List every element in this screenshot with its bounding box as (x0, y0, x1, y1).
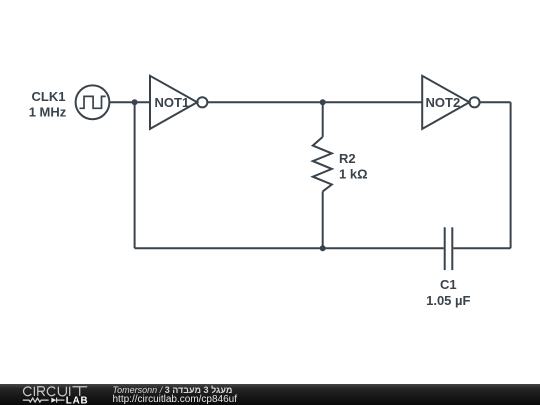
junction node B (NOT1 out / R2 top) (320, 99, 326, 105)
inverter NOT1 (150, 76, 207, 129)
CircuitLab logo (0, 384, 110, 405)
wire bottom middle to C1 (323, 247, 444, 249)
wire NOT2 output to right corner (480, 101, 511, 103)
wire CLK1 output to NOT1 input (109, 101, 150, 103)
svg-text:C1: C1 (440, 277, 457, 292)
junction node C (R2 bottom / feedback) (320, 245, 326, 251)
junction node A (CLK1/NOT1/feedback) (132, 99, 138, 105)
wire bottom left segment (135, 247, 323, 249)
resistor R2 (313, 102, 332, 248)
wire right side up (510, 102, 512, 248)
svg-text:CLK1: CLK1 (32, 89, 66, 104)
wire C1 to right corner (453, 247, 510, 249)
footer title (113, 385, 233, 395)
svg-text:1 kΩ: 1 kΩ (339, 167, 368, 182)
capacitor C1 (445, 227, 453, 270)
svg-text:NOT1: NOT1 (155, 95, 190, 110)
footer bar (0, 384, 540, 405)
inverter NOT2 (422, 76, 479, 129)
wire node A down left side (134, 102, 136, 248)
footer url (113, 394, 238, 405)
svg-text:R2: R2 (339, 151, 356, 166)
clock source CLK1 (76, 85, 110, 119)
wire NOT1 output to NOT2 input (207, 101, 422, 103)
svg-text:NOT2: NOT2 (426, 95, 461, 110)
svg-text:LAB: LAB (66, 395, 89, 405)
svg-text:1 MHz: 1 MHz (29, 105, 67, 120)
svg-text:1.05 µF: 1.05 µF (426, 293, 470, 308)
